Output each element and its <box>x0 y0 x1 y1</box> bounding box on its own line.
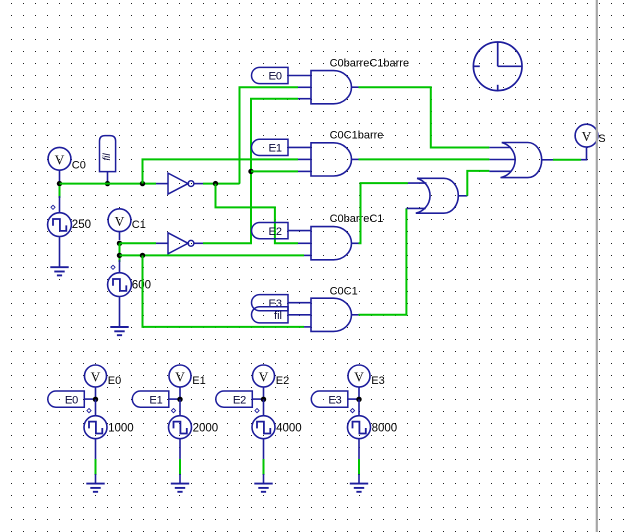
wire probe S lead <box>581 147 587 160</box>
wire AND3 middle input stub <box>298 242 311 244</box>
source 250 polarity marker <box>51 205 55 209</box>
wire source 250 top lead <box>59 196 61 213</box>
svg-text:4000: 4000 <box>276 423 302 435</box>
junction node J on C1bar net <box>248 169 253 174</box>
wire ground lead E1 <box>179 474 181 484</box>
wire node E3 to source <box>358 399 360 416</box>
svg-text:fil: fil <box>274 310 282 322</box>
svg-text:E2: E2 <box>276 375 289 387</box>
svg-text:C1: C1 <box>132 219 146 231</box>
wire AND2 bottom input stub <box>298 170 311 172</box>
ground under source 1000 <box>86 484 104 492</box>
wire tag fil to AND4 middle input <box>288 314 311 316</box>
wire inverter U2 output stub <box>195 242 204 244</box>
wire AND1 output to OR3 top input <box>359 87 490 147</box>
svg-text:V: V <box>259 370 269 385</box>
source 1000 (square-wave generator) <box>84 416 107 439</box>
clock icon <box>473 42 522 91</box>
ground under source 600 <box>110 327 128 335</box>
input tag E2 <box>252 223 288 239</box>
wire source 4000 bottom lead upper <box>263 439 265 460</box>
wire source 600 bottom lead <box>119 297 121 328</box>
wire E1 ground net <box>179 459 181 475</box>
wire node E0 to source <box>95 399 97 416</box>
source 250 (square-wave generator) <box>48 213 72 237</box>
svg-text:E0: E0 <box>65 394 78 406</box>
probe E3 (voltmeter) <box>348 365 370 387</box>
source 600 polarity marker <box>111 265 115 269</box>
wire C0 net down segment <box>59 186 61 198</box>
svg-text:E0: E0 <box>269 71 282 83</box>
svg-text:E2: E2 <box>269 226 282 238</box>
junction node B (fil tap on C0 net) <box>105 181 110 186</box>
wire source 1000 bottom lead upper <box>95 439 97 460</box>
wire C1bar net to AND2 bottom input <box>251 170 298 172</box>
source 2000 polarity marker <box>171 409 175 413</box>
ground under source 2000 <box>171 484 189 492</box>
wire OR2 output stub <box>458 195 467 197</box>
ground under source 4000 <box>254 484 272 492</box>
probe E0 (voltmeter) <box>85 365 107 387</box>
wire S net <box>553 159 581 161</box>
wire tag E0 to AND1 top input <box>288 75 311 77</box>
wire source 250 bottom lead <box>59 237 61 268</box>
ground under source 250 <box>50 267 68 275</box>
input tag E1 <box>252 139 289 155</box>
wire tag E0 to node <box>84 398 95 400</box>
junction node F on C1 net <box>117 253 122 258</box>
svg-text:2000: 2000 <box>193 423 219 435</box>
wire node E1 to source <box>179 399 181 416</box>
wire tag E2 to node <box>252 398 263 400</box>
wire E0 ground net <box>95 459 97 475</box>
junction node E3 <box>356 397 361 402</box>
junction node K on C1 net <box>140 253 145 258</box>
ground under source 8000 <box>350 484 368 492</box>
svg-text:C0barreC1: C0barreC1 <box>330 213 384 225</box>
wire AND2 middle input stub <box>298 158 311 160</box>
input tag E0 <box>252 67 288 83</box>
svg-text:E2: E2 <box>233 394 246 406</box>
wire source 2000 bottom lead upper <box>179 439 181 460</box>
wire OR3 bottom input stub <box>489 170 511 172</box>
OR gate U7 (first stage) <box>416 178 459 213</box>
wire ground lead E2 <box>263 474 265 484</box>
AND gate U4 C0C1barre <box>311 143 352 176</box>
svg-text:E1: E1 <box>192 375 205 387</box>
OR gate U8 (output stage) <box>501 143 542 178</box>
page margin line <box>596 0 598 532</box>
wire inverter U2 input stub <box>156 242 168 244</box>
junction node E1 <box>177 397 182 402</box>
wire probe C0 lead <box>59 170 61 181</box>
svg-text:fil: fil <box>102 153 113 161</box>
source 2000 (square-wave generator) <box>169 416 192 439</box>
wire probe E2 lead <box>263 387 265 397</box>
source 1000 polarity marker <box>87 409 91 413</box>
wire E3 ground net <box>358 459 360 475</box>
wire OR2 bottom input stub <box>406 207 425 209</box>
AND gate U3 C0barreC1barre <box>311 71 351 104</box>
svg-text:E3: E3 <box>269 298 282 310</box>
wire AND1 output stub <box>352 86 359 88</box>
wire AND4 output to OR2 bottom input <box>359 208 407 314</box>
source 8000 polarity marker <box>350 409 354 413</box>
input tag E1 (source row) <box>132 391 169 407</box>
source 4000 (square-wave generator) <box>252 416 275 439</box>
source 600 (square-wave generator) <box>108 273 132 297</box>
wire C1 net down to AND4 bottom input <box>143 255 305 327</box>
wire AND1 bottom input stub <box>298 98 311 100</box>
net label fil (wire link) <box>100 136 116 172</box>
wire tag E1 to node <box>169 398 180 400</box>
junction node A on C0 net <box>57 181 62 186</box>
inverter U2 (NOT gate, C1bar) <box>168 233 194 254</box>
svg-text:V: V <box>55 152 65 167</box>
inverter U1 (NOT gate, C0bar) <box>168 173 194 194</box>
wire OR3 top input stub <box>489 147 511 149</box>
junction node E on C1 net <box>117 241 122 246</box>
wire inverter U1 output stub <box>195 183 204 185</box>
svg-text:E1: E1 <box>269 143 282 155</box>
probe C0 (voltmeter) <box>48 147 71 170</box>
junction node E2 <box>261 397 266 402</box>
wire node E2 to source <box>263 399 265 416</box>
net tag fil at AND4 <box>252 307 288 323</box>
svg-text:V: V <box>175 370 185 385</box>
svg-text:C0barreC1barre: C0barreC1barre <box>330 58 409 70</box>
wire OR2 top input stub <box>408 182 427 184</box>
svg-text:C0C1: C0C1 <box>330 285 358 297</box>
source 4000 polarity marker <box>255 409 259 413</box>
wire C1 net horizontal to AND3 bottom input <box>120 254 305 256</box>
wire C1bar net to vertical riser <box>203 99 298 244</box>
wire AND3 output to OR2 top input <box>359 183 408 243</box>
wire probe C1 lead <box>119 232 121 240</box>
wire ground lead E3 <box>358 474 360 484</box>
wire AND3 output stub <box>352 242 359 244</box>
probe E1 (voltmeter) <box>169 365 191 387</box>
wire C0 net horizontal <box>60 183 157 185</box>
junction node E0 <box>93 397 98 402</box>
wire AND4 output stub <box>352 314 359 316</box>
svg-text:C0: C0 <box>72 159 86 171</box>
AND gate U5 C0barreC1 <box>311 227 351 260</box>
svg-text:V: V <box>91 370 101 385</box>
wire AND2 output stub <box>352 158 359 160</box>
svg-text:1000: 1000 <box>108 423 134 435</box>
wire OR2 output to OR3 bottom input <box>467 171 489 196</box>
probe S (voltmeter) <box>575 124 598 147</box>
svg-text:E0: E0 <box>108 375 121 387</box>
wire inverter U1 input stub <box>156 183 168 185</box>
probe C1 (voltmeter) <box>108 209 131 232</box>
wire tag E1 to AND2 top input <box>288 146 311 148</box>
svg-text:V: V <box>115 214 125 229</box>
source 8000 (square-wave generator) <box>348 416 371 439</box>
wire fil lead <box>107 172 109 181</box>
wire C1 net vertical <box>119 243 121 262</box>
wire tag E3 to AND4 top input <box>288 302 311 304</box>
wire AND1 middle input stub <box>298 86 311 88</box>
svg-text:250: 250 <box>72 219 91 231</box>
wire tag E3 to node <box>348 398 359 400</box>
svg-text:V: V <box>582 129 592 144</box>
probe E2 (voltmeter) <box>253 365 275 387</box>
wire probe E1 lead <box>179 387 181 397</box>
wire C0bar net to AND3 middle input <box>216 184 299 244</box>
wire OR3 output stub <box>542 159 553 161</box>
wire AND3 bottom input stub <box>304 254 311 256</box>
svg-text:C0C1barre: C0C1barre <box>330 129 384 141</box>
AND gate U6 C0C1 <box>311 298 351 331</box>
wire E2 ground net <box>263 459 265 475</box>
wire C0bar net up to AND1 middle input <box>240 87 299 183</box>
wire tag E2 to AND3 top input <box>288 230 311 232</box>
wire ground lead E0 <box>95 474 97 484</box>
input tag E0 (source row) <box>48 391 85 407</box>
junction node C on C0 net <box>140 181 145 186</box>
wire AND2 output to OR3 middle input <box>359 158 490 160</box>
input tag E2 (source row) <box>216 391 253 407</box>
wire C0bar net horizontal <box>203 183 240 185</box>
input tag E3 <box>252 295 288 311</box>
svg-text:V: V <box>354 370 364 385</box>
svg-text:600: 600 <box>132 279 151 291</box>
wire inverter U2 input wire <box>120 242 157 244</box>
wire source 600 top lead <box>119 260 121 273</box>
svg-text:E3: E3 <box>328 394 341 406</box>
svg-text:8000: 8000 <box>372 423 398 435</box>
wire source 8000 bottom lead upper <box>358 439 360 460</box>
junction node D on C0bar net <box>213 181 218 186</box>
svg-text:E3: E3 <box>371 375 384 387</box>
wire probe E3 lead <box>358 387 360 397</box>
wire OR3 middle input stub <box>489 159 516 161</box>
svg-text:S: S <box>598 133 605 145</box>
svg-text:E1: E1 <box>149 394 162 406</box>
wire probe E0 lead <box>95 387 97 397</box>
input tag E3 (source row) <box>311 391 348 407</box>
wire AND4 bottom input stub <box>304 326 311 328</box>
wire C0 net to AND2 middle input <box>143 159 299 183</box>
